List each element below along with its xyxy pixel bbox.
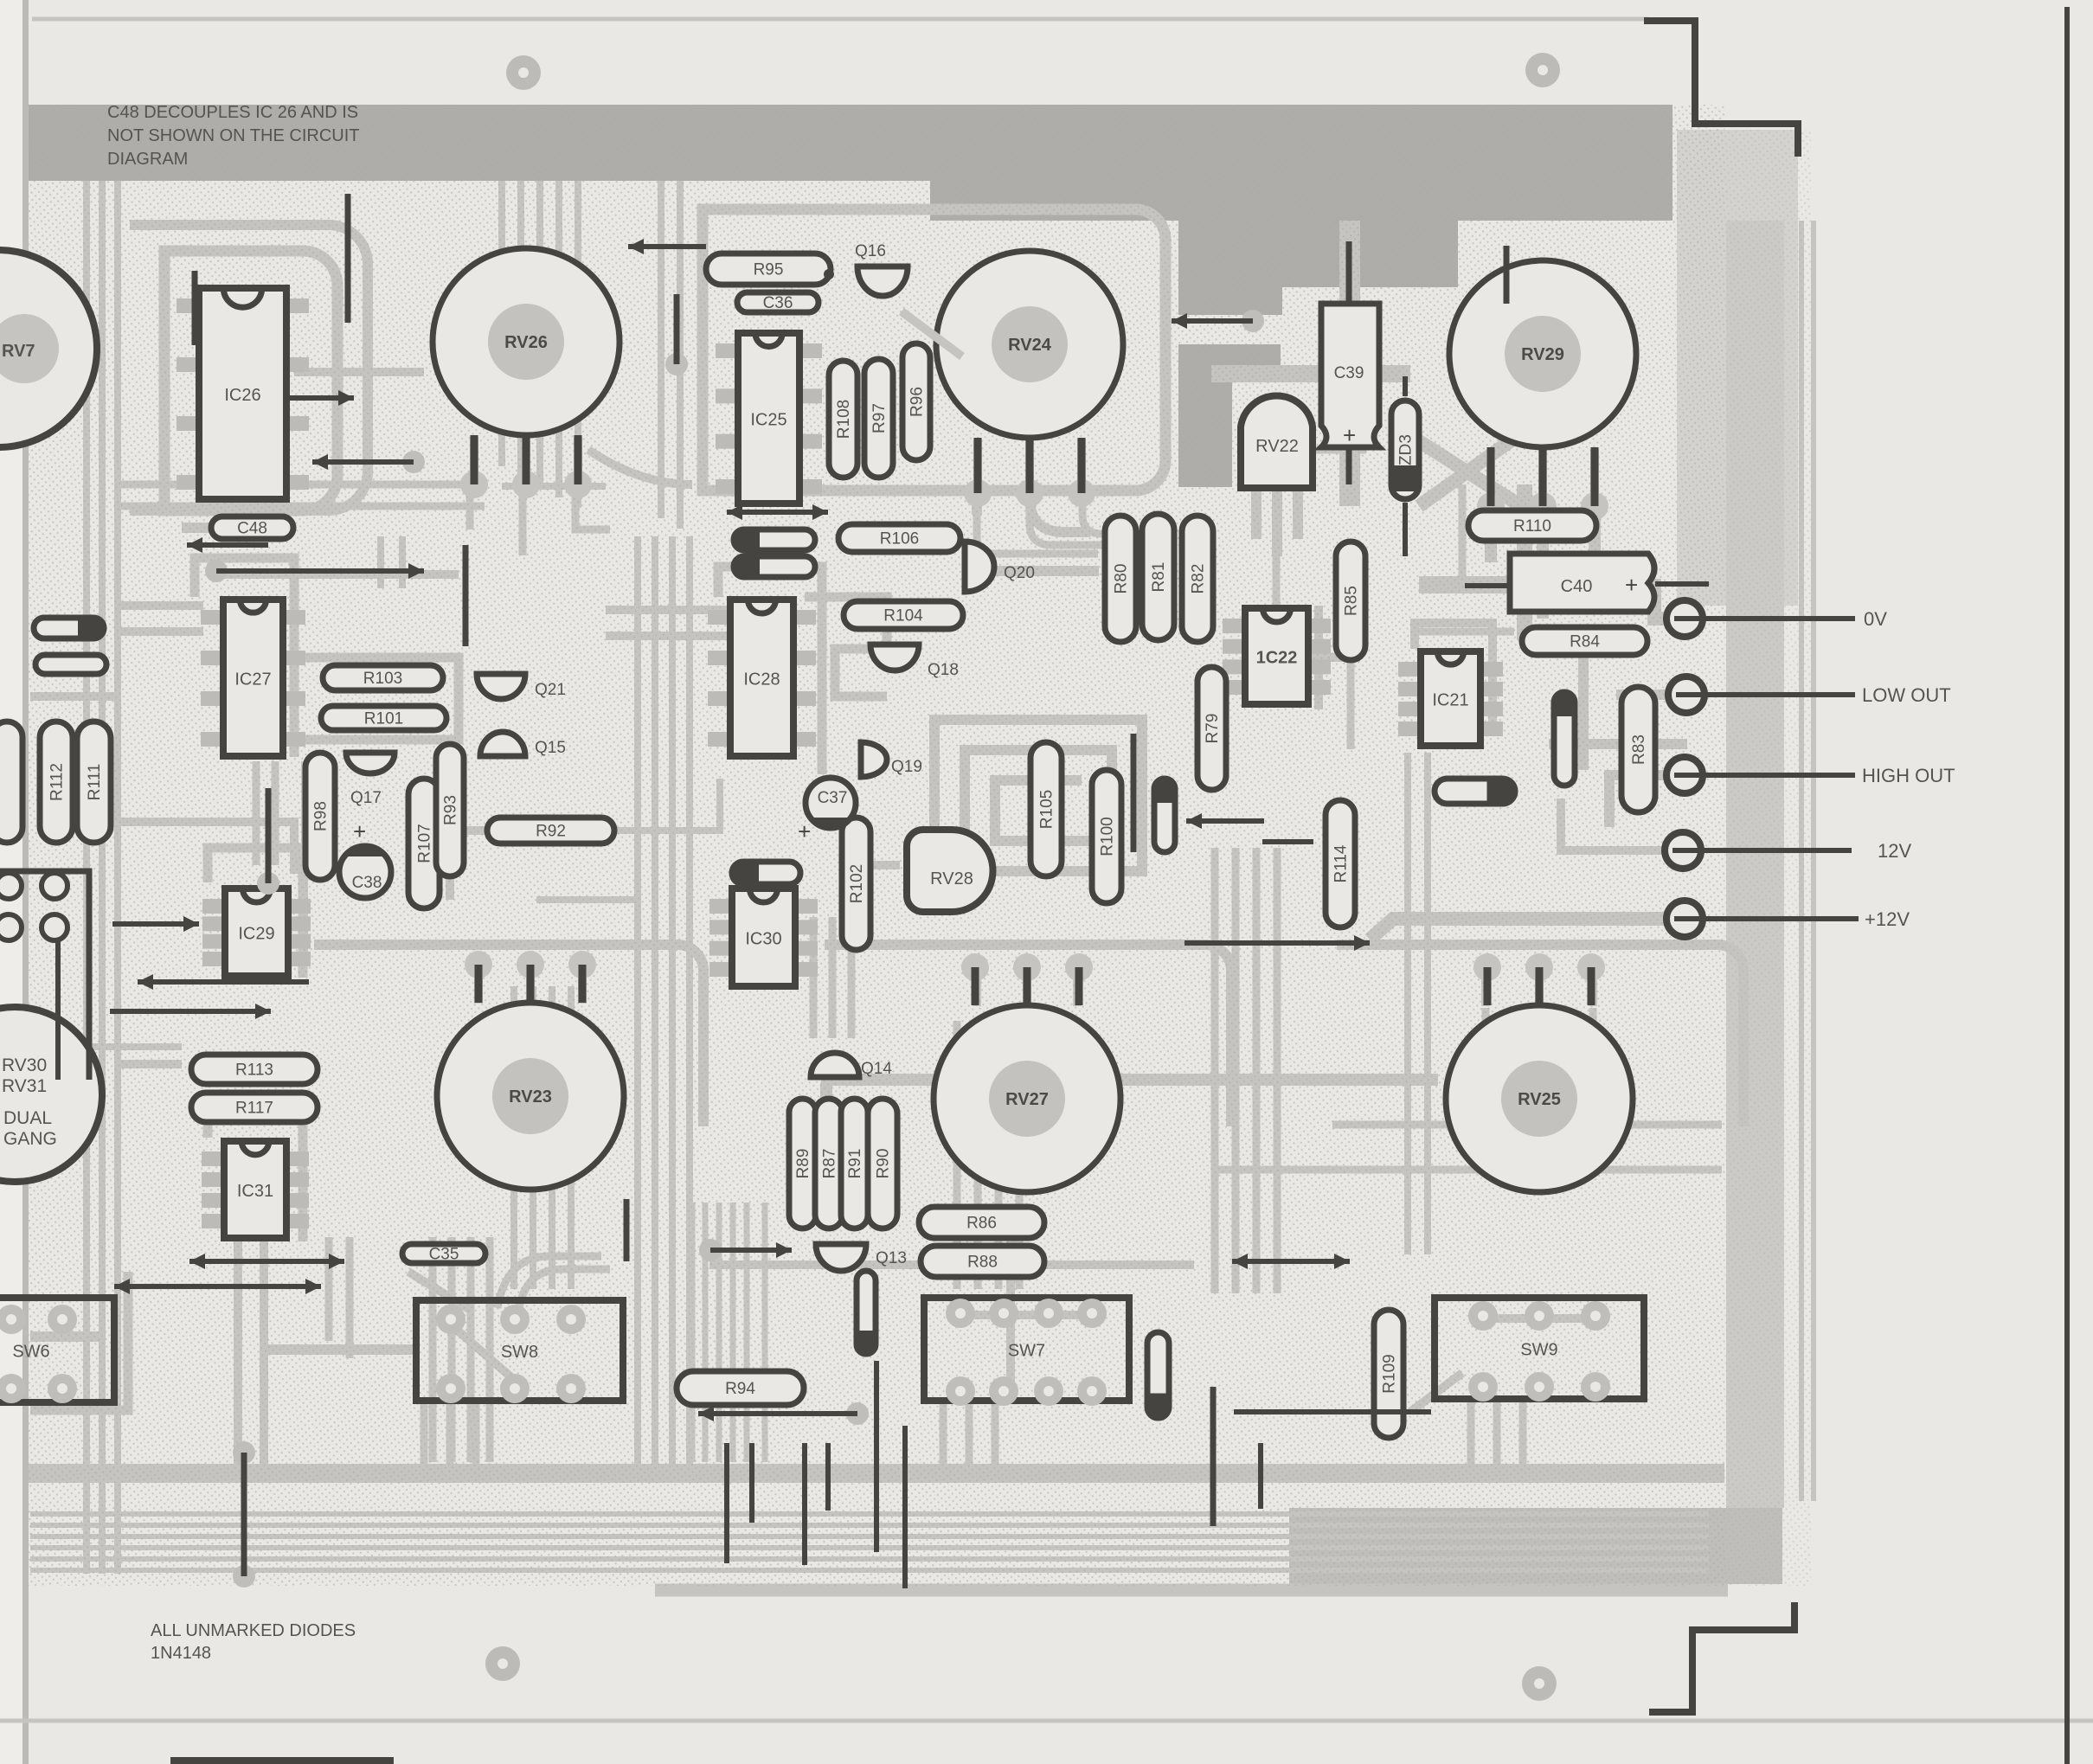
svg-text:R100: R100	[1099, 817, 1117, 856]
svg-text:R90: R90	[875, 1149, 893, 1179]
svg-text:R89: R89	[794, 1149, 812, 1179]
scan left edge fold line	[0, 0, 22, 1764]
svg-text:C39: C39	[1334, 364, 1364, 382]
trace around IC21 comb	[1415, 623, 1493, 735]
resistor R86	[919, 1207, 1044, 1238]
svg-text:IC21: IC21	[1432, 691, 1468, 710]
svg-text:R94: R94	[725, 1380, 755, 1398]
svg-text:R107: R107	[416, 824, 434, 863]
svg-text:+: +	[798, 818, 811, 844]
wire vertical above IC27	[463, 545, 469, 646]
trace wide y1248 center-right	[826, 1080, 1438, 1135]
wire pad below C36	[665, 353, 688, 375]
svg-text:1C22: 1C22	[1256, 649, 1298, 668]
trace horizontal mid-left at IC27 level	[121, 601, 203, 610]
svg-text:R104: R104	[883, 607, 923, 625]
wire below IC25	[727, 510, 828, 515]
trimmer RV28	[907, 830, 993, 912]
svg-text:R101: R101	[364, 710, 403, 728]
trace +12V from pad	[1370, 919, 1670, 940]
pad 0V	[1666, 600, 1887, 637]
wire above RV29	[1504, 246, 1510, 304]
resistor R80	[1105, 516, 1136, 642]
diode right of SW7	[1147, 1332, 1169, 1418]
trace horizontals upper mid y560	[502, 483, 606, 490]
mounting hole pad	[1522, 1666, 1557, 1701]
trace fan RV23 legs up	[474, 960, 483, 1004]
central vertical trace bundle	[634, 536, 641, 1466]
resistor R89	[789, 1099, 816, 1228]
svg-text:C38: C38	[352, 874, 382, 892]
svg-text:12V: 12V	[1878, 840, 1911, 862]
svg-text:RV23: RV23	[509, 1087, 552, 1107]
svg-text:Q19: Q19	[891, 758, 922, 776]
svg-text:C35: C35	[429, 1246, 459, 1264]
trace horizontal y 1230 bottom left	[121, 1060, 182, 1068]
svg-text:C48: C48	[237, 520, 267, 538]
trace bundle center-bottom to bus	[690, 1203, 696, 1462]
trace horizontals left of IC28	[606, 606, 727, 614]
svg-text:LOW OUT: LOW OUT	[1862, 684, 1951, 706]
svg-text:R105: R105	[1038, 790, 1056, 829]
trace vertical x 1690 y 560-700	[1459, 484, 1467, 588]
svg-text:RV30: RV30	[2, 1055, 47, 1075]
wire vertical right of R100	[1131, 734, 1137, 852]
potentiometer RV23	[437, 951, 624, 1190]
pad HIGH OUT	[1666, 757, 1955, 793]
svg-text:R87: R87	[821, 1149, 839, 1179]
potentiometer RV29	[1449, 260, 1636, 520]
trace vertical through R110 C40	[1517, 484, 1532, 640]
transistor Q14	[811, 1053, 859, 1077]
dark pill right of IC21	[1435, 779, 1515, 804]
trace bundle feeding SW7	[1211, 848, 1219, 1293]
trace RV26 legs down fan	[466, 486, 474, 529]
svg-text:R83: R83	[1630, 734, 1648, 765]
bottom figure edge line	[170, 1757, 394, 1764]
wire above Q13	[699, 1239, 722, 1261]
board outline right edge line	[2064, 7, 2070, 1764]
pad LOW OUT	[1668, 677, 1951, 713]
dark-end pill below IC25	[734, 529, 815, 550]
capacitor C40 left lead	[1465, 583, 1510, 588]
trace ring around IC26 group	[164, 251, 337, 510]
svg-text:Q16: Q16	[855, 242, 886, 260]
wire above SW9	[1232, 1259, 1350, 1264]
capacitor C39 bottom lead	[1346, 447, 1352, 484]
trace angled from RV26 to IC25	[588, 450, 692, 484]
wire near R114 upper	[1186, 818, 1264, 824]
trace ring around RV23	[314, 945, 703, 1126]
trace ring top-left around IC26 outer	[130, 225, 368, 510]
board outline bottom-right step	[1649, 1602, 1794, 1712]
svg-text:R98: R98	[312, 801, 331, 831]
svg-text:R81: R81	[1150, 562, 1168, 593]
potentiometer RV27	[934, 953, 1120, 1192]
trace horizontal y 730 left of R110	[1419, 628, 1514, 636]
svg-text:R110: R110	[1513, 517, 1551, 536]
trace verticals from R85 bottom	[1347, 663, 1355, 749]
svg-text:C48 DECOUPLES IC 26 AND IS: C48 DECOUPLES IC 26 AND IS	[107, 103, 358, 122]
svg-text:IC25: IC25	[750, 411, 786, 430]
resistor R92	[487, 818, 614, 844]
dark-end pill upper left	[34, 618, 104, 638]
svg-text:RV29: RV29	[1521, 345, 1564, 364]
trace zigzag right of IC28	[805, 597, 887, 696]
trace diagonal below C35	[408, 1272, 472, 1311]
trace ring around RV24 group	[703, 209, 1165, 491]
svg-text:SW8: SW8	[501, 1343, 538, 1362]
svg-text:ALL UNMARKED DIODES: ALL UNMARKED DIODES	[151, 1621, 356, 1640]
trace verticals x350 range down from IC27	[301, 761, 308, 960]
mounting hole pad	[506, 55, 541, 90]
potentiometer RV7 (left edge, partial)	[0, 250, 97, 447]
trace horizontal upper area y660	[216, 570, 459, 579]
svg-text:R108: R108	[835, 400, 853, 439]
trace around IC31	[208, 1103, 303, 1241]
diode near IC21	[1554, 692, 1575, 786]
svg-text:RV22: RV22	[1255, 437, 1299, 456]
svg-text:R96: R96	[908, 387, 927, 417]
svg-text:RV7: RV7	[2, 342, 35, 361]
capacitor C40 electrolytic	[1510, 554, 1654, 612]
resistor R94	[677, 1371, 804, 1405]
trace fan RV25 legs up	[1481, 963, 1490, 1006]
svg-text:IC31: IC31	[237, 1182, 273, 1201]
svg-text:Q13: Q13	[876, 1249, 907, 1267]
resistor R105	[1030, 742, 1062, 876]
ground plane band deep center-right	[930, 177, 1672, 221]
resistor R85	[1336, 542, 1365, 660]
transistor Q20	[965, 542, 994, 592]
trace verticals RV23 to SW8 gap	[510, 986, 517, 1289]
trace RV25 legs context	[1482, 1008, 1490, 1042]
wire left of C48	[187, 542, 268, 548]
trace bundle between RV23 and SW8	[429, 1237, 437, 1462]
light pour right of board edge	[1677, 130, 1798, 606]
trace verticals below SW9 to bus	[1467, 1400, 1475, 1466]
svg-text:1N4148: 1N4148	[151, 1644, 211, 1663]
svg-text:Q18: Q18	[928, 661, 959, 679]
trace from Q20 to R80	[995, 566, 1099, 576]
resistor R98	[305, 753, 335, 880]
svg-text:Q15: Q15	[535, 739, 566, 757]
svg-text:R92: R92	[536, 823, 566, 841]
svg-text:R109: R109	[1381, 1354, 1399, 1393]
IC22	[1223, 608, 1331, 704]
resistor R117	[191, 1093, 318, 1122]
trace from 12V pad left	[1561, 799, 1665, 850]
switch SW6 (left edge, partial)	[0, 1298, 114, 1403]
svg-text:R82: R82	[1190, 564, 1208, 594]
trace vertical above IC22	[1273, 554, 1281, 606]
resistor R84	[1522, 627, 1647, 655]
wire bottom center v4	[825, 1443, 831, 1511]
wire below IC29 a	[138, 979, 309, 985]
capacitor C37	[806, 778, 856, 828]
svg-text:Q21: Q21	[535, 681, 566, 699]
wire below IC29 b	[110, 1009, 271, 1014]
wire below IC31	[233, 1441, 255, 1464]
svg-text:HIGH OUT: HIGH OUT	[1862, 765, 1955, 786]
trace verticals near IC31	[234, 1241, 242, 1466]
trace bend at HIGH OUT	[1609, 775, 1670, 827]
svg-text:R88: R88	[967, 1254, 998, 1272]
svg-text:RV24: RV24	[1008, 336, 1052, 355]
wire left of IC29	[112, 921, 199, 927]
svg-text:R86: R86	[966, 1215, 997, 1233]
wire below C48 long	[205, 560, 228, 582]
trace fan RV27 legs up	[973, 963, 981, 1006]
trace SW8 internal diagonal	[450, 1324, 519, 1384]
wire RV24 to C39	[1242, 310, 1264, 332]
potentiometer RV30/RV31 dual gang (bottom left, partial)	[0, 1007, 102, 1182]
meander trace center	[934, 720, 1142, 897]
trace bundle from band down between RV26 and IC25	[498, 181, 505, 466]
wire right of SW7 h	[1234, 1409, 1431, 1414]
rect around left pads	[0, 871, 89, 1080]
resistor R103	[323, 665, 443, 690]
svg-text:IC30: IC30	[745, 930, 781, 949]
trace vertical through SW7 from R86	[1006, 1211, 1015, 1397]
resistor R87	[815, 1099, 843, 1228]
resistor R81	[1142, 514, 1174, 640]
trace wide bottom extra	[655, 1584, 1728, 1597]
trace fan RV29 legs	[1486, 450, 1495, 504]
wire below Q13 diode	[874, 1361, 879, 1552]
resistor R101	[321, 706, 446, 730]
svg-text:RV26: RV26	[504, 333, 548, 352]
trace vertical under R84	[1578, 657, 1589, 770]
wire left of IC26	[192, 271, 198, 345]
svg-text:Q17: Q17	[350, 789, 382, 807]
transistor Q19	[861, 742, 887, 777]
trace horizontal under C40	[1419, 576, 1653, 593]
trace verticals below SW7 to bus	[940, 1402, 947, 1466]
svg-text:SW9: SW9	[1520, 1341, 1557, 1360]
svg-text:R113: R113	[235, 1062, 273, 1080]
svg-text:DUAL: DUAL	[3, 1108, 52, 1128]
ground plane band top	[29, 105, 1672, 181]
svg-text:Q20: Q20	[1004, 564, 1035, 582]
diode dark pill right of R100	[1154, 779, 1175, 852]
trace horizontal through R83 zone	[1549, 739, 1687, 749]
resistor R79	[1197, 667, 1226, 790]
bottom bus wide trace	[29, 1464, 1724, 1483]
board outline top-right step	[1644, 21, 1798, 157]
potentiometer RV25	[1446, 953, 1633, 1192]
trace ring around RV25	[1337, 945, 1743, 1126]
svg-text:R103: R103	[363, 670, 402, 688]
svg-text:C40: C40	[1561, 577, 1593, 596]
svg-text:IC28: IC28	[743, 670, 780, 690]
pad +12V	[1666, 901, 1910, 937]
trace long right side vertical pair	[1404, 753, 1411, 1254]
trace vertical pair x300 down from IC27	[253, 761, 260, 865]
potentiometer RV26	[433, 248, 620, 498]
trace horizontal IC22 to R85	[1308, 653, 1360, 662]
resistor R90	[868, 1099, 897, 1228]
svg-text:GANG: GANG	[3, 1129, 57, 1149]
wire bottom center v6	[902, 1426, 908, 1588]
trace horizontal y 960 right of R92	[616, 779, 720, 831]
resistor R96	[902, 343, 930, 460]
svg-text:R79: R79	[1204, 714, 1222, 744]
svg-text:IC26: IC26	[224, 386, 260, 405]
resistor R113	[191, 1055, 318, 1084]
svg-text:IC29: IC29	[238, 925, 274, 944]
transistor Q16	[857, 266, 908, 296]
trace snake left of RV28	[848, 865, 900, 943]
trace RV29 leg verticals	[1485, 515, 1497, 562]
resistor R97	[864, 359, 893, 478]
svg-text:IC27: IC27	[234, 670, 271, 690]
IC27	[201, 600, 305, 756]
transistor Q13	[816, 1244, 866, 1271]
svg-text:RV27: RV27	[1005, 1090, 1049, 1109]
resistor R114	[1326, 800, 1355, 927]
bottom-right pour band	[1289, 1508, 1782, 1584]
svg-text:+: +	[1343, 422, 1356, 448]
trace horizontal y 1350 right	[1211, 1166, 1722, 1174]
wire long below RV28	[1185, 940, 1370, 946]
capacitor C35	[402, 1244, 485, 1264]
trace diagonal right of SW7	[1410, 1373, 1462, 1412]
capacitor C36	[737, 292, 819, 312]
resistor R95	[706, 253, 831, 285]
capacitor C39 electrolytic	[1321, 304, 1379, 447]
svg-text:RV25: RV25	[1518, 1090, 1561, 1109]
left pad circles	[0, 873, 22, 899]
IC31	[202, 1141, 309, 1238]
resistor R106	[838, 524, 960, 552]
svg-text:R117: R117	[235, 1100, 273, 1118]
gray block above RV29 zone	[1178, 221, 1458, 287]
resistor R83	[1621, 687, 1655, 812]
trace fan RV26 legs	[470, 437, 478, 489]
resistor R107	[408, 779, 440, 908]
resistor R111	[77, 722, 111, 843]
svg-text:R114: R114	[1332, 844, 1351, 882]
zener ZD3 bottom lead	[1403, 503, 1408, 556]
mounting hole pad	[1525, 53, 1560, 87]
IC25	[716, 333, 822, 504]
trace 0V from pad	[1507, 586, 1670, 619]
capacitor C48	[211, 516, 293, 539]
halftone texture over board	[29, 105, 1724, 1586]
IC26	[177, 288, 309, 499]
resistor R91	[841, 1099, 868, 1228]
resistor partial left edge	[0, 722, 22, 843]
trace verticals right of IC22	[1314, 606, 1323, 709]
zener diode ZD3	[1391, 401, 1419, 499]
svg-text:SW7: SW7	[1008, 1342, 1045, 1361]
trace curves right of SW8	[498, 1256, 601, 1308]
svg-text:R84: R84	[1570, 633, 1600, 651]
trace left bundle horizontals y1210	[87, 1043, 182, 1050]
svg-text:ZD3: ZD3	[1397, 434, 1416, 465]
trace around IC29	[208, 848, 303, 978]
resistor R108	[829, 361, 857, 478]
svg-text:R91: R91	[846, 1149, 864, 1179]
transistor Q17	[346, 753, 395, 773]
gray column between RV24 and RV29 zones	[1178, 287, 1282, 315]
pill upper left 2	[35, 655, 106, 674]
trace around R103 R101	[303, 657, 459, 740]
svg-text:R102: R102	[848, 864, 866, 903]
trace down from RV24 legs to R80 area	[972, 497, 982, 515]
trace horizontal into SW8 from left	[260, 1344, 415, 1355]
trace comb around IC27	[195, 558, 294, 757]
svg-text:Q14: Q14	[861, 1060, 892, 1078]
trace SW9 internals	[1486, 1314, 1595, 1323]
trace horizontal y 870 left edge	[30, 692, 117, 701]
wire right of IC26 lower	[402, 451, 425, 473]
resistor R82	[1182, 516, 1213, 642]
svg-text:C37: C37	[818, 789, 848, 807]
trace verticals above SW7 from RV27	[953, 1021, 961, 1289]
trace behind C39	[1339, 221, 1360, 506]
bottom page rule line	[0, 1719, 2093, 1723]
resistor R93	[436, 744, 464, 876]
wire above IC31 b	[114, 1284, 321, 1289]
svg-text:R106: R106	[880, 530, 919, 548]
wire vertical above IC29	[257, 872, 279, 895]
capacitor C38	[339, 846, 391, 898]
right pour column	[1726, 221, 1784, 1508]
wire right of SW7 v	[1210, 1387, 1217, 1526]
trace RV22 legs fan	[1251, 491, 1262, 539]
switch SW7	[924, 1298, 1129, 1406]
zener ZD3 top lead	[1403, 376, 1408, 396]
top page rule line	[32, 17, 1648, 22]
svg-text:R111: R111	[86, 764, 104, 801]
svg-text:DIAGRAM: DIAGRAM	[107, 150, 188, 169]
pad 12V	[1665, 832, 1911, 869]
trace bend at LOW OUT	[1616, 690, 1668, 700]
transistor Q21	[477, 674, 525, 699]
bottom bus thin traces	[30, 1511, 1709, 1517]
trace verticals between IC31 and SW8	[325, 1237, 333, 1341]
capacitor C40 right lead	[1655, 581, 1709, 587]
trace horizontal y 1300 right	[1332, 1121, 1722, 1129]
wire to R95	[628, 244, 706, 249]
mounting hole pad	[485, 1646, 520, 1681]
trace fan RV24 legs	[973, 439, 982, 493]
trace horizontal below C48	[182, 523, 294, 533]
trace horizontal runs center y1460	[709, 1260, 1194, 1269]
svg-text:R80: R80	[1113, 564, 1131, 594]
wire vertical right of RV23	[624, 1199, 630, 1261]
resistor R112	[40, 722, 73, 843]
resistor R104	[844, 601, 963, 629]
trace verticals between IC30 and RV27	[810, 917, 818, 1038]
transistor Q18	[870, 645, 919, 670]
trimmer RV22	[1241, 395, 1313, 488]
svg-text:R93: R93	[442, 795, 460, 825]
trace SW7 internals	[965, 1311, 1090, 1319]
trace horizontal into SW6	[30, 1331, 100, 1342]
left board edge trace bundle	[83, 181, 90, 1574]
svg-text:+: +	[353, 818, 366, 844]
wire vertical left pads	[55, 927, 61, 1080]
trace ring around SW6	[30, 1272, 128, 1410]
svg-text:NOT SHOWN ON THE CIRCUIT: NOT SHOWN ON THE CIRCUIT	[107, 126, 359, 145]
trace horizontal to ZD3	[1211, 365, 1410, 382]
IC28	[708, 600, 816, 756]
resistor R88	[921, 1246, 1044, 1277]
svg-text:RV28: RV28	[930, 869, 973, 888]
